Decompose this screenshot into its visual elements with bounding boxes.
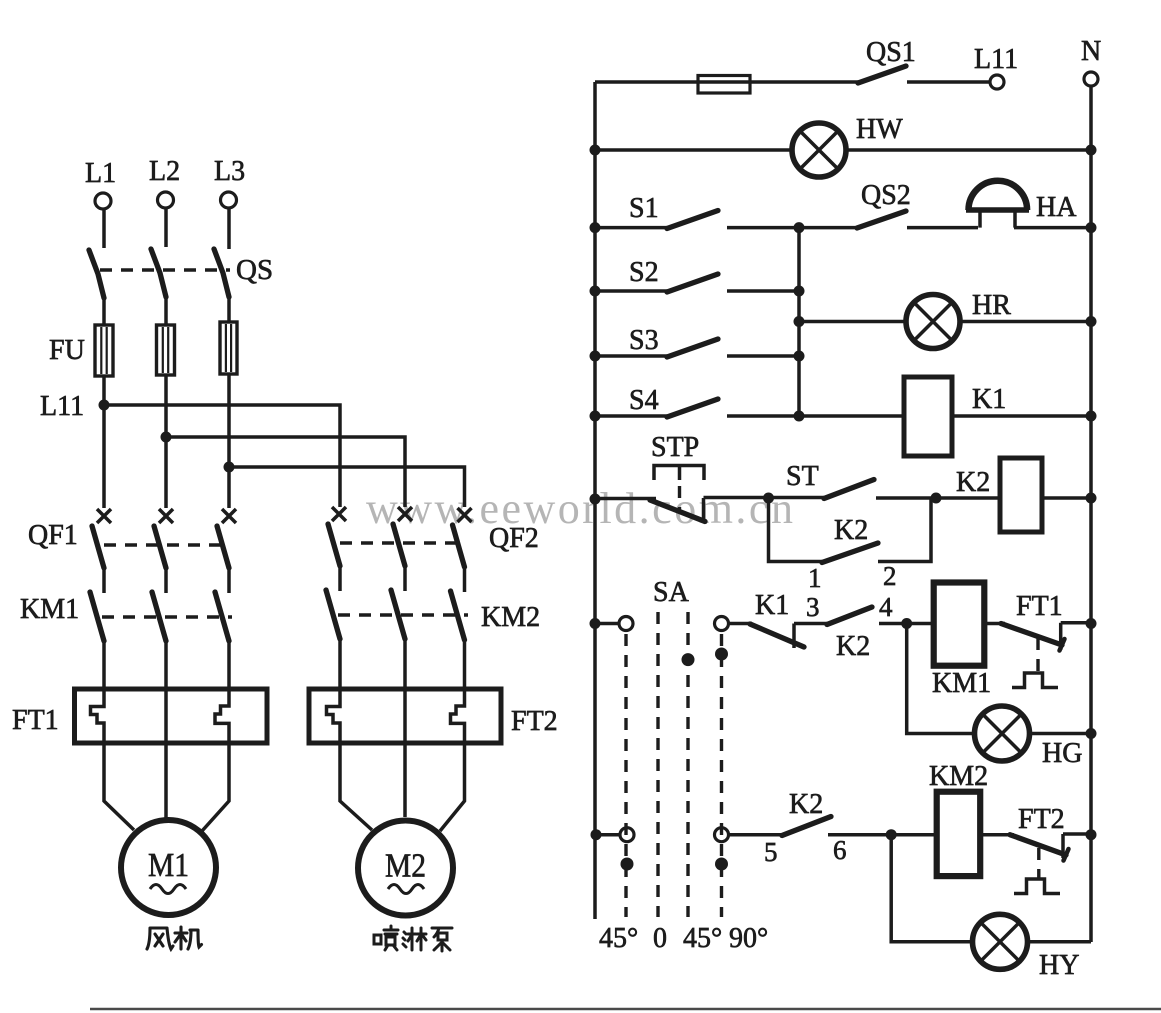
svg-text:4: 4 <box>879 592 893 622</box>
wire HA to bus <box>1014 226 1091 230</box>
svg-text:KM1: KM1 <box>20 594 79 625</box>
thermal relay FT2 box <box>309 689 501 743</box>
SA column 3 dashed <box>682 612 695 917</box>
wire QS to FU pole2 <box>164 295 168 325</box>
node FT1 right <box>1086 618 1097 629</box>
label fan (风机) under M1 <box>147 927 202 949</box>
breaker QF2 linkage <box>340 541 466 544</box>
svg-text:HA: HA <box>1036 192 1077 223</box>
switch QS pole 1 <box>89 250 104 298</box>
contact K2 row3 <box>827 592 901 662</box>
wire branch L3 to QF2 pole3 <box>229 467 465 507</box>
node K2 right <box>1086 493 1097 504</box>
svg-text:3: 3 <box>806 592 820 622</box>
node HA right <box>1086 222 1097 233</box>
contactor KM1 linkage <box>102 615 232 618</box>
svg-text:K2: K2 <box>956 467 990 498</box>
contact K2 row5 <box>764 789 847 867</box>
svg-text:L11: L11 <box>974 44 1018 75</box>
node S1 left <box>590 222 601 233</box>
node self hold <box>763 493 774 504</box>
wire ST to K2 coil <box>876 496 1000 500</box>
wire L1 fuse down <box>102 376 106 508</box>
wire S4 row <box>595 414 1091 418</box>
svg-text:QF2: QF2 <box>489 523 539 554</box>
svg-text:M2: M2 <box>385 848 426 885</box>
wire HW row <box>595 148 1091 152</box>
svg-text:ST: ST <box>786 461 819 492</box>
thermal relay FT2 heater2 wire <box>403 691 407 743</box>
svg-text:L11: L11 <box>40 391 84 422</box>
contactor KM1 blade3 <box>215 592 229 641</box>
switch S1 blade <box>667 211 718 229</box>
node HW right <box>1086 145 1097 156</box>
breaker QF1 cross pole2 <box>159 509 173 523</box>
wire top row <box>595 80 990 84</box>
svg-text:N: N <box>1081 36 1101 67</box>
contact K1 <box>750 590 820 648</box>
switch ST blade <box>824 480 874 499</box>
svg-text:FT1: FT1 <box>1016 591 1063 622</box>
thermal contact FT2 <box>1010 804 1091 894</box>
contactor KM2 blade3 <box>451 591 465 640</box>
SA column 2 dashed <box>656 612 659 917</box>
svg-text:6: 6 <box>833 835 847 865</box>
terminal N <box>1081 36 1101 86</box>
node L11 junction <box>99 400 110 411</box>
SA contact terminal b1 <box>715 617 729 918</box>
svg-text:S4: S4 <box>629 385 659 416</box>
wire L1 stem <box>102 209 106 248</box>
contact K2 self hold branch <box>769 498 932 593</box>
thermal contact FT1 <box>1001 591 1091 688</box>
terminal L1 <box>85 158 116 209</box>
SA contact terminal a2 <box>620 828 634 871</box>
svg-text:KM1: KM1 <box>932 668 991 699</box>
pushbutton STP <box>650 432 705 523</box>
node S2 mid <box>794 286 805 297</box>
contactor KM1 blade1 <box>90 592 104 641</box>
svg-text:QS1: QS1 <box>866 37 916 68</box>
node KM2 row left <box>591 829 602 840</box>
relay coil K1 <box>904 377 1006 456</box>
breaker QF2 cross pole1 <box>332 507 346 521</box>
svg-text:1: 1 <box>808 563 822 593</box>
breaker QF1 cross pole3 <box>222 509 236 523</box>
terminal L11 right <box>974 44 1018 89</box>
thermal relay FT1 heater2 wire <box>164 691 168 743</box>
svg-text:K1: K1 <box>972 384 1006 415</box>
wire S3 row <box>595 354 799 358</box>
fuse FU pole2 <box>157 325 175 375</box>
svg-text:M1: M1 <box>148 847 189 884</box>
wire KM2 row left <box>595 833 620 837</box>
SA contact terminal a1 <box>619 617 633 918</box>
wire STP to ST <box>595 497 656 501</box>
thermal relay FT2 heater1 <box>327 691 341 743</box>
lamp HY <box>973 914 1080 981</box>
wire to KM1 coil <box>901 622 934 626</box>
node S2 left <box>590 286 601 297</box>
switch QS2 blade <box>857 211 906 228</box>
svg-text:HR: HR <box>972 290 1011 321</box>
svg-text:45°: 45° <box>683 923 722 954</box>
bottom border line <box>90 1008 1161 1011</box>
svg-text:HW: HW <box>856 114 903 145</box>
wire SA to K2 contact row <box>729 833 785 837</box>
node S4 left <box>590 411 601 422</box>
terminal L2 <box>149 156 180 208</box>
motor M1 <box>121 820 216 915</box>
wire branch L2 to QF2 pole2 <box>166 437 405 507</box>
fuse FU pole3 <box>220 322 237 374</box>
svg-text:90°: 90° <box>729 923 768 954</box>
svg-text:K2: K2 <box>789 789 823 820</box>
lamp HR <box>906 290 1011 349</box>
breaker QF2 cross pole3 <box>458 508 472 522</box>
lamp HG <box>975 706 1083 769</box>
wire HR row <box>799 320 1091 324</box>
svg-text:www.eeworld.com.cn: www.eeworld.com.cn <box>366 484 795 533</box>
wire HG to bus <box>1030 732 1092 736</box>
thermal relay FT1 heater3 <box>215 691 229 743</box>
mid bus <box>797 228 801 416</box>
wire FT1 to motor M1 <box>104 743 229 831</box>
breaker QF2 blade2 <box>393 524 405 566</box>
svg-text:S3: S3 <box>629 325 659 356</box>
wire branch L11 to QF2 pole1 <box>104 405 340 507</box>
wire K2 to KM2 coil <box>828 833 937 837</box>
node KM1 branch <box>901 618 912 629</box>
svg-text:HY: HY <box>1039 950 1079 981</box>
switch S3 blade <box>667 339 718 357</box>
svg-text:KM2: KM2 <box>929 761 988 792</box>
breaker QF2 blade1 <box>328 524 340 566</box>
breaker QF1 cross pole1 <box>97 509 111 523</box>
wire HY branch <box>891 835 972 942</box>
svg-text:QF1: QF1 <box>28 520 78 551</box>
node KM2 branch <box>886 829 897 840</box>
node HW left <box>590 145 601 156</box>
bell HA <box>966 181 1077 228</box>
wire QS to FU pole3 <box>227 295 231 322</box>
wire QS to FU pole1 <box>102 296 106 325</box>
svg-text:STP: STP <box>651 432 699 463</box>
wire KM1 to FT1 contact <box>984 622 1005 626</box>
wire QF2 to KM2 contacts <box>340 564 465 592</box>
svg-text:KM2: KM2 <box>481 602 540 633</box>
wire L3 fuse down <box>227 374 231 508</box>
node S4 right <box>1086 411 1097 422</box>
svg-text:L3: L3 <box>214 156 245 187</box>
contactor KM2 blade2 <box>391 590 405 639</box>
motor M2 <box>358 821 453 916</box>
contactor coil KM2 <box>929 761 988 876</box>
contactor coil KM1 <box>932 583 991 700</box>
svg-text:QS: QS <box>236 254 273 286</box>
contactor KM2 blade1 <box>326 590 340 639</box>
switch QS pole 3 <box>214 249 229 297</box>
switch S4 blade <box>667 399 718 417</box>
node K2 riser <box>931 493 942 504</box>
node KM1 row left <box>590 618 601 629</box>
wire QS2 row <box>799 226 978 230</box>
wire KM2 to FT2 <box>340 637 465 689</box>
breaker QF1 blade2 <box>154 526 166 568</box>
label spray pump (喷淋泵) under M2 <box>374 926 452 951</box>
switch QS linkage <box>100 268 230 271</box>
wire HY to bus <box>1028 940 1092 944</box>
svg-text:2: 2 <box>883 561 897 591</box>
wire L3 stem <box>227 208 231 249</box>
SA contact terminal b2 <box>715 828 729 871</box>
thermal relay FT1 heater1 <box>91 691 105 743</box>
wire K1 to K2 contact <box>794 622 829 626</box>
svg-text:QS2: QS2 <box>861 180 911 211</box>
node S3 left <box>590 351 601 362</box>
left bus <box>593 82 597 919</box>
svg-text:S2: S2 <box>629 257 659 288</box>
SA position labels <box>599 923 768 954</box>
wire S1 row <box>595 226 799 230</box>
breaker QF1 blade1 <box>92 526 104 568</box>
contactor KM1 blade2 <box>152 592 166 641</box>
wire KM1 row left <box>595 622 619 626</box>
wire KM1 to FT1 <box>104 639 229 689</box>
node HR mid <box>794 316 805 327</box>
switch QS pole 2 <box>151 249 166 297</box>
svg-text:K2: K2 <box>836 631 870 662</box>
svg-text:L1: L1 <box>85 158 116 189</box>
wire QF1 to KM1 contacts <box>104 566 229 593</box>
thermal relay FT2 heater3 <box>451 691 465 743</box>
svg-text:5: 5 <box>764 837 778 867</box>
node STP left <box>590 494 601 505</box>
node L2 branch junction <box>161 432 172 443</box>
svg-text:K1: K1 <box>755 590 789 621</box>
svg-text:45°: 45° <box>599 923 638 954</box>
wire K2 coil to bus <box>1042 496 1091 500</box>
svg-text:L2: L2 <box>149 156 180 187</box>
node L3 branch junction <box>224 462 235 473</box>
right bus N <box>1089 86 1093 942</box>
fuse FU pole1 <box>95 325 113 376</box>
terminal L3 <box>214 156 245 208</box>
fuse control circuit <box>698 76 750 94</box>
switch S2 blade <box>667 274 718 292</box>
wire S2 row <box>595 289 799 293</box>
breaker QF2 cross pole2 <box>398 507 412 521</box>
wire L2 fuse down <box>164 375 168 508</box>
svg-text:K2: K2 <box>834 515 868 546</box>
node HG right <box>1086 728 1097 739</box>
node HR right <box>1086 316 1097 327</box>
node S4 mid <box>794 411 805 422</box>
wire HG branch <box>907 624 975 734</box>
svg-text:FU: FU <box>49 335 85 366</box>
relay coil K2 <box>956 458 1042 532</box>
lamp HW <box>792 114 903 177</box>
breaker QF2 blade3 <box>453 525 465 567</box>
svg-text:SA: SA <box>653 577 690 608</box>
switch QS1 blade <box>858 66 906 83</box>
svg-text:FT1: FT1 <box>12 705 59 736</box>
svg-text:FT2: FT2 <box>1018 804 1065 835</box>
breaker QF1 blade3 <box>217 526 229 568</box>
wire L2 stem <box>164 208 168 247</box>
svg-text:0: 0 <box>653 923 667 954</box>
node S3 mid <box>794 351 805 362</box>
svg-text:S1: S1 <box>629 193 659 224</box>
svg-text:FT2: FT2 <box>511 706 558 737</box>
breaker QF1 linkage <box>104 543 230 546</box>
wire KM2 to FT2 contact <box>980 833 1014 837</box>
svg-text:HG: HG <box>1042 738 1082 769</box>
node FT2 right <box>1086 829 1097 840</box>
thermal relay FT1 box <box>75 689 268 743</box>
wire FT2 to motor M2 <box>340 743 465 831</box>
wire SA to K1 contact <box>729 622 753 626</box>
contactor KM2 linkage <box>338 613 468 616</box>
node S1 mid bus <box>794 222 805 233</box>
